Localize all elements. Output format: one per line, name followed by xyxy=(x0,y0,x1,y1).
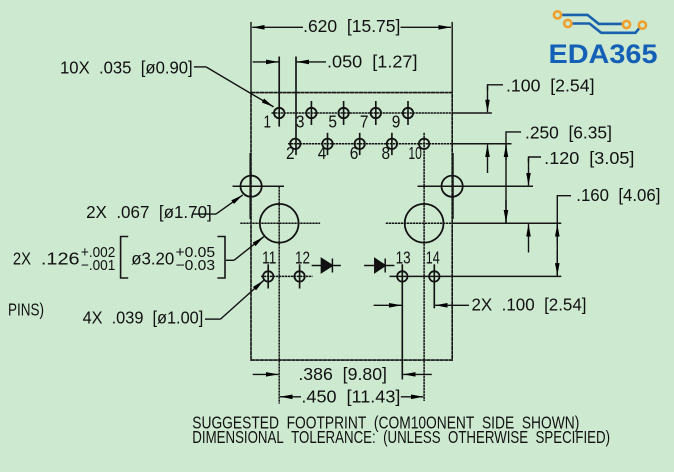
svg-text:5: 5 xyxy=(328,112,337,132)
svg-text:EDA365: EDA365 xyxy=(549,39,658,69)
svg-text:.386 [9.80]: .386 [9.80] xyxy=(298,364,387,384)
svg-text:13: 13 xyxy=(396,248,411,268)
svg-text:DIMENSIONAL TOLERANCE: (UNLE: DIMENSIONAL TOLERANCE: (UNLESS OTHERWISE… xyxy=(192,427,610,447)
svg-text:.100 [2.54]: .100 [2.54] xyxy=(506,76,595,96)
svg-text:2: 2 xyxy=(286,143,295,163)
svg-text:3: 3 xyxy=(296,112,305,132)
svg-text:0 PINS): 0 PINS) xyxy=(0,299,44,319)
svg-text:6: 6 xyxy=(350,143,359,163)
svg-text:−0.03: −0.03 xyxy=(176,258,216,274)
svg-text:.620 [15.75]: .620 [15.75] xyxy=(303,16,400,36)
svg-text:.050 [1.27]: .050 [1.27] xyxy=(327,51,418,71)
svg-text:12: 12 xyxy=(295,248,310,268)
svg-text:10X .035 [ø0.90]: 10X .035 [ø0.90] xyxy=(60,57,193,77)
svg-text:2X .067 [ø1.70]: 2X .067 [ø1.70] xyxy=(86,202,212,222)
svg-text:2X .100 [2.54]: 2X .100 [2.54] xyxy=(472,295,587,315)
svg-text:4X .039 [ø1.00]: 4X .039 [ø1.00] xyxy=(83,307,204,327)
svg-text:.120 [3.05]: .120 [3.05] xyxy=(544,148,634,168)
svg-text:.160 [4.06]: .160 [4.06] xyxy=(576,185,660,205)
svg-text:11: 11 xyxy=(262,248,277,268)
svg-text:9: 9 xyxy=(392,112,401,132)
svg-text:−.001: −.001 xyxy=(81,258,115,274)
svg-text:10: 10 xyxy=(408,143,422,163)
svg-text:.126: .126 xyxy=(41,248,80,268)
svg-text:ø3.20: ø3.20 xyxy=(131,248,174,268)
svg-text:4: 4 xyxy=(318,143,327,163)
svg-text:14: 14 xyxy=(426,248,440,268)
svg-text:.450 [11.43]: .450 [11.43] xyxy=(301,387,400,407)
svg-text:.250 [6.35]: .250 [6.35] xyxy=(525,123,612,143)
svg-text:1: 1 xyxy=(264,112,272,132)
svg-text:8: 8 xyxy=(382,143,391,163)
svg-text:2X: 2X xyxy=(13,248,31,268)
svg-text:7: 7 xyxy=(360,112,369,132)
